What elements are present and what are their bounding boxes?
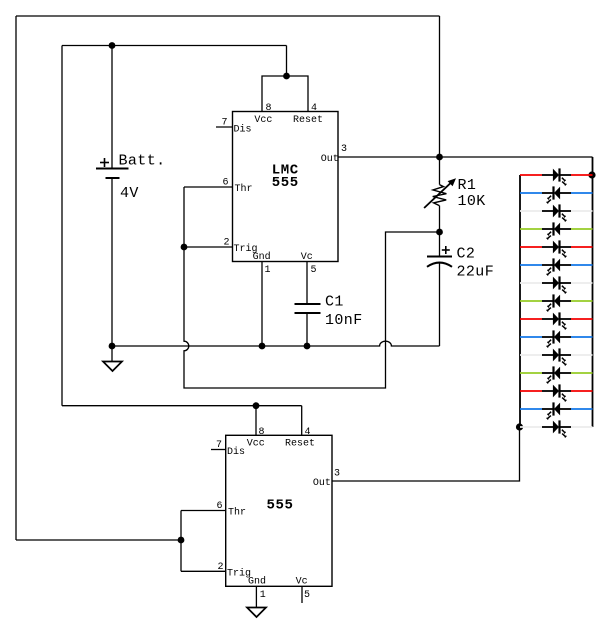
node: R1 / C2 / U1 threshold junction [436, 229, 443, 236]
svg-text:Reset: Reset [293, 115, 323, 126]
capacitor C2 curved negative plate [427, 263, 452, 267]
LED D11 (anode left) [542, 348, 571, 365]
wire: outer loop left vertical [15, 16, 17, 540]
capacitor C2 bottom lead to ground bus [439, 263, 441, 347]
svg-text:8: 8 [259, 427, 265, 438]
svg-text:Dis: Dis [234, 124, 252, 136]
pin 5 stub U2 [301, 586, 303, 603]
svg-text:Thr: Thr [235, 183, 253, 195]
svg-text:22uF: 22uF [457, 264, 495, 281]
LED D5 (anode left) [542, 240, 571, 257]
svg-text:7: 7 [216, 440, 222, 451]
LED D10 row wire left colored segment [520, 336, 542, 338]
wire: drop from supply rail to top-555 pin link [286, 46, 288, 77]
LED D9 row wire left colored segment [520, 318, 542, 320]
LED D12 row wire right colored segment [571, 372, 593, 374]
wire: U1 Out to right rail [338, 156, 593, 158]
svg-text:8: 8 [266, 103, 272, 114]
pin 1 gnd lead U2 [255, 586, 257, 607]
svg-text:1: 1 [265, 265, 271, 276]
LED D9 (anode left) [542, 312, 571, 329]
svg-text:4: 4 [311, 103, 317, 114]
LED D15 row wire left colored segment [520, 426, 542, 428]
svg-text:R1: R1 [458, 177, 477, 194]
wire: supply rail bottom horizontal to bottom-555 [62, 405, 302, 407]
svg-text:Vc: Vc [301, 252, 313, 263]
LED D12 (anode right) [542, 366, 571, 383]
LED D10 (anode right) [542, 330, 571, 347]
ground symbol main [103, 346, 122, 371]
LED D14 row wire right colored segment [571, 408, 593, 410]
LED D13 row wire right colored segment [571, 390, 593, 392]
resistor R1 top lead [439, 157, 441, 185]
svg-text:7: 7 [222, 118, 228, 129]
LED D8 row wire left colored segment [520, 300, 542, 302]
node: outer loop joins U2 link [178, 537, 185, 544]
svg-text:Thr: Thr [228, 507, 246, 519]
wire: outer loop top horizontal [16, 15, 440, 17]
svg-text:Dis: Dis [227, 446, 245, 458]
node: Trig junction U1 [181, 244, 188, 251]
svg-text:5: 5 [304, 590, 310, 601]
LED D10 row wire right colored segment [571, 336, 593, 338]
capacitor C1 bottom lead [306, 313, 308, 346]
wire: battery bottom lead [111, 178, 113, 346]
svg-text:4: 4 [305, 427, 311, 438]
LED D5 row wire right colored segment [571, 246, 593, 248]
LED D1 row wire left colored segment [520, 174, 542, 176]
pin 2 stub U1 (Trig) [184, 246, 233, 248]
battery plus sign [100, 158, 109, 167]
battery Batt. positive plate [96, 168, 129, 170]
pin 7 stub U2 [211, 449, 226, 451]
node: C1 junction [304, 343, 311, 350]
wire: U2 pin 4 drop [301, 406, 303, 436]
pin 7 stub U1 [216, 126, 233, 128]
LED D4 row wire left colored segment [520, 228, 542, 230]
resistor R1 wiper arrow [424, 182, 451, 208]
wire: ground bus with hop over riser [112, 341, 440, 346]
node: battery negative / ground [109, 343, 116, 350]
wire: LED ladder left rail [519, 175, 521, 427]
LED D4 row wire right colored segment [571, 228, 593, 230]
svg-text:Batt.: Batt. [119, 153, 166, 170]
capacitor C1 bottom plate [295, 312, 321, 314]
LED D2 row wire left colored segment [520, 192, 542, 194]
LED D6 row wire left colored segment [520, 264, 542, 266]
LED D6 row wire right colored segment [571, 264, 593, 266]
wire: supply rail top horizontal [62, 45, 287, 47]
LED D4 (anode right) [542, 222, 571, 239]
LED D9 row wire right colored segment [571, 318, 593, 320]
pin 2 stub U2 (Trig) [181, 570, 226, 572]
LED D15 row wire right colored segment [571, 426, 593, 428]
capacitor C2 plus sign [442, 246, 450, 254]
wire: supply rail left vertical [61, 46, 63, 406]
LED D3 row wire left colored segment [520, 210, 542, 212]
wire: U2 pin 8 drop [255, 406, 257, 436]
LED D11 row wire right colored segment [571, 354, 593, 356]
LED D13 (anode left) [542, 384, 571, 401]
capacitor C2 top lead [439, 232, 441, 257]
battery Batt. negative plate [106, 177, 120, 179]
LED D14 (anode right) [542, 402, 571, 419]
svg-text:Vcc: Vcc [247, 439, 265, 450]
svg-text:Out: Out [313, 478, 331, 489]
wire: battery top lead [111, 46, 113, 169]
capacitor C1 top plate [295, 303, 321, 305]
IC U1 LMC555 body [233, 112, 339, 262]
node: Out / R1 top junction [436, 154, 443, 161]
LED D1 (anode left) [542, 168, 571, 185]
svg-text:2: 2 [218, 562, 224, 573]
pin 6 stub U2 (Thr) [181, 510, 226, 512]
wire: Thr-Trig link of U1 [183, 187, 185, 247]
LED D1 row wire right colored segment [571, 174, 593, 176]
svg-text:555: 555 [272, 175, 299, 191]
LED D7 row wire left colored segment [520, 282, 542, 284]
LED D15 (anode left) [542, 420, 571, 437]
wire: outer loop bottom horizontal to bottom-555 Thr link [16, 539, 181, 541]
svg-text:Gnd: Gnd [253, 251, 271, 263]
LED D2 (anode right) [542, 186, 571, 203]
wire: U2 Out to LED ladder left rail [332, 427, 520, 481]
node: supply joins U1 pin link [283, 73, 290, 80]
wire: U1 Trig down, hop over ground bus, across and up to R1/C2 node [184, 232, 440, 388]
svg-text:Vcc: Vcc [254, 115, 272, 126]
wire: right vertical down to Out node [439, 16, 441, 157]
svg-text:10K: 10K [458, 193, 486, 210]
svg-text:C1: C1 [325, 294, 344, 311]
svg-text:10nF: 10nF [325, 312, 363, 329]
svg-text:C2: C2 [457, 246, 476, 263]
svg-text:Gnd: Gnd [248, 576, 266, 588]
pin 6 stub U1 (Thr) [184, 186, 233, 188]
svg-text:3: 3 [334, 469, 340, 480]
LED D3 row wire right colored segment [571, 210, 593, 212]
wire: right rail corner from Out line [592, 157, 594, 427]
LED D3 (anode left) [542, 204, 571, 221]
svg-text:1: 1 [260, 590, 266, 601]
svg-text:4V: 4V [120, 185, 139, 202]
LED D7 row wire right colored segment [571, 282, 593, 284]
svg-text:5: 5 [311, 265, 317, 276]
svg-text:3: 3 [341, 144, 347, 155]
LED D8 (anode right) [542, 294, 571, 311]
ground symbol U2 [247, 608, 266, 618]
svg-text:555: 555 [266, 498, 293, 514]
LED D11 row wire left colored segment [520, 354, 542, 356]
LED D7 (anode left) [542, 276, 571, 293]
svg-text:Vc: Vc [296, 577, 308, 588]
svg-text:Reset: Reset [285, 439, 315, 450]
wire: pin8-pin4 link of U1 [262, 76, 308, 112]
pin 1 gnd lead U1 [261, 262, 263, 347]
wire: Thr-Trig link of U2 [180, 511, 182, 572]
LED D5 row wire left colored segment [520, 246, 542, 248]
IC U2 555 body [226, 435, 332, 586]
LED D14 row wire left colored segment [520, 408, 542, 410]
node: pin1 gnd junction [259, 343, 266, 350]
LED D8 row wire right colored segment [571, 300, 593, 302]
svg-text:Out: Out [321, 154, 339, 165]
LED D13 row wire left colored segment [520, 390, 542, 392]
LED D12 row wire left colored segment [520, 372, 542, 374]
LED D2 row wire right colored segment [571, 192, 593, 194]
capacitor C2 positive plate [427, 256, 452, 258]
resistor R1 zigzag body [433, 185, 447, 206]
LED D6 (anode right) [542, 258, 571, 275]
node: right rail top junction [588, 171, 595, 178]
svg-text:2: 2 [224, 238, 230, 249]
node: left rail bottom junction (to U2 Out) [516, 423, 523, 430]
svg-text:6: 6 [217, 501, 223, 512]
resistor R1 bottom lead [439, 206, 441, 232]
capacitor C1 top lead (Vc pin 5) [306, 262, 308, 305]
node: battery positive tap [109, 42, 116, 49]
node: supply joins U2 pin 8 [253, 402, 260, 409]
svg-text:6: 6 [223, 178, 229, 189]
